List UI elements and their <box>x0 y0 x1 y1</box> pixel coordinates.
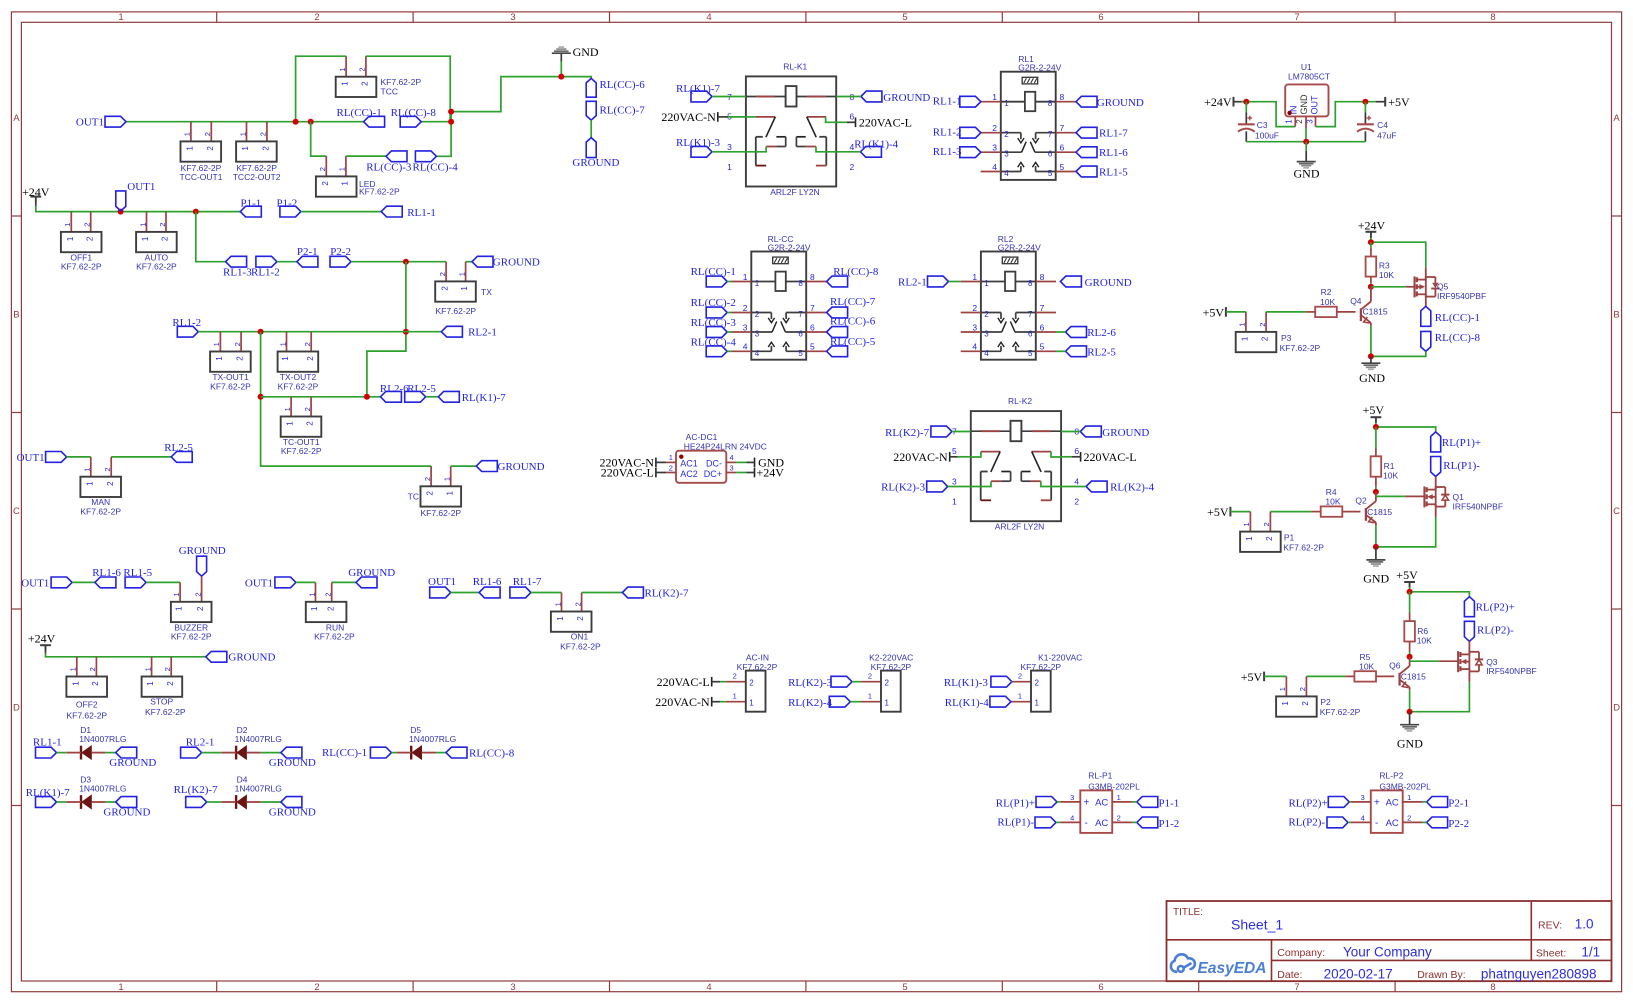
wire OUT1 to MAN pin1 <box>67 456 91 458</box>
wire Q5 drain to RL(CC)-1 <box>1425 294 1427 306</box>
svg-text:GND: GND <box>1294 166 1320 180</box>
svg-text:1: 1 <box>1242 522 1251 526</box>
svg-text:+24V: +24V <box>757 466 785 480</box>
svg-text:AC1: AC1 <box>680 459 698 469</box>
wire +24V to U1 pin1 <box>1234 101 1242 103</box>
svg-text:5: 5 <box>902 12 907 23</box>
connector P1 KF7.62-2P <box>1249 512 1251 532</box>
svg-text:RL(P2)+: RL(P2)+ <box>1476 602 1515 614</box>
svg-text:C4: C4 <box>1377 120 1388 130</box>
net label 220VAC-L (AC-DC1 pin2) <box>655 468 657 478</box>
port RL(K2)-7 (ON1 row) <box>622 587 643 598</box>
svg-text:Sheet:: Sheet: <box>1536 948 1566 960</box>
svg-text:220VAC-L: 220VAC-L <box>1084 450 1137 464</box>
svg-text:1: 1 <box>183 132 192 136</box>
svg-text:6: 6 <box>1074 446 1079 456</box>
svg-text:2: 2 <box>423 477 432 481</box>
wire D3 to GROUND <box>106 801 116 803</box>
svg-text:RL2-1: RL2-1 <box>898 276 927 288</box>
diode D2 1N4007RLG <box>235 746 237 760</box>
svg-text:GND: GND <box>573 45 599 59</box>
svg-text:1: 1 <box>143 667 152 671</box>
svg-text:1: 1 <box>341 81 350 86</box>
svg-text:5: 5 <box>952 446 957 456</box>
svg-text:KF7.62-2P: KF7.62-2P <box>145 707 186 717</box>
svg-text:1: 1 <box>118 982 123 993</box>
junction +24V Q5 <box>1368 239 1374 245</box>
svg-text:1: 1 <box>460 286 469 291</box>
net label 220VAC-L (RL-K1 pin6) <box>855 118 857 128</box>
svg-text:4: 4 <box>992 162 997 172</box>
port RL1-2 <box>256 256 277 267</box>
svg-text:6: 6 <box>1060 143 1065 153</box>
wire RL2-1 to D2 <box>202 752 222 754</box>
svg-text:GROUND: GROUND <box>179 545 226 557</box>
svg-text:P2-1: P2-1 <box>297 246 318 258</box>
port RL1-3 <box>226 256 247 267</box>
port RL(CC)-7 (down) <box>586 101 596 120</box>
svg-text:3: 3 <box>727 142 732 152</box>
svg-text:5: 5 <box>902 982 907 993</box>
svg-text:OUT1: OUT1 <box>17 452 45 464</box>
svg-text:RL1-1: RL1-1 <box>407 207 436 219</box>
wire RL1-7 to ON1 pin1 <box>531 592 562 594</box>
svg-text:D: D <box>1613 702 1620 713</box>
svg-text:KF7.62-2P: KF7.62-2P <box>314 632 355 642</box>
port P1-1 (SSR) <box>1137 797 1158 808</box>
svg-text:2: 2 <box>262 146 271 151</box>
svg-text:3: 3 <box>972 322 977 332</box>
svg-text:7: 7 <box>1028 310 1033 319</box>
wire RUN pin2 to GROUND <box>332 581 356 583</box>
svg-text:RL(CC)-7: RL(CC)-7 <box>830 296 876 308</box>
svg-text:1: 1 <box>1245 536 1254 541</box>
diode D3 1N4007RLG <box>80 795 82 809</box>
connector RUN KF7.62-2P <box>315 582 317 601</box>
svg-text:C1815: C1815 <box>1363 307 1388 317</box>
svg-text:220VAC-L: 220VAC-L <box>859 115 912 129</box>
svg-text:GROUND: GROUND <box>493 257 540 269</box>
svg-text:ON1: ON1 <box>571 632 589 642</box>
svg-text:4: 4 <box>706 12 711 23</box>
svg-text:+24V: +24V <box>1204 95 1232 109</box>
svg-text:ARL2F LY2N: ARL2F LY2N <box>770 187 819 197</box>
svg-text:1: 1 <box>445 491 454 496</box>
junction TX row <box>403 259 409 265</box>
svg-text:KF7.62-2P: KF7.62-2P <box>66 711 107 721</box>
port GROUND (below RL(CC)-7) <box>586 138 596 158</box>
svg-text:REV:: REV: <box>1538 920 1562 932</box>
svg-text:1.0: 1.0 <box>1575 917 1594 932</box>
svg-text:2: 2 <box>306 421 315 426</box>
svg-text:KF7.62-2P: KF7.62-2P <box>1020 662 1061 672</box>
svg-text:GROUND: GROUND <box>269 807 316 819</box>
svg-text:+24V: +24V <box>22 185 50 199</box>
capacitor C4 47uF <box>1364 102 1366 113</box>
svg-text:OUT1: OUT1 <box>428 576 456 588</box>
svg-text:6: 6 <box>1048 150 1053 159</box>
junction TX-OUT row <box>258 329 264 335</box>
svg-text:RL(P1)-: RL(P1)- <box>1443 460 1480 472</box>
wire +24V to P1-1 <box>35 197 37 206</box>
svg-text:+5V: +5V <box>1241 670 1263 684</box>
wire +5V to RL(P2)+ <box>1409 583 1411 588</box>
svg-text:phatnguyen280898: phatnguyen280898 <box>1481 966 1597 981</box>
svg-text:RL(P2)-: RL(P2)- <box>1477 625 1514 637</box>
svg-text:2: 2 <box>314 12 319 23</box>
port GROUND (RL1 pin8) <box>1076 96 1097 107</box>
svg-text:220VAC-L: 220VAC-L <box>601 466 654 480</box>
svg-text:RL(CC)-8: RL(CC)-8 <box>1435 332 1481 344</box>
wire +5V to P2/R5 <box>1264 675 1286 677</box>
wire gate Q1 <box>1375 492 1377 497</box>
transistor Q2 C1815 <box>1375 496 1377 501</box>
wire RL2-1 flag to relay <box>949 281 961 283</box>
svg-text:1: 1 <box>186 146 195 151</box>
svg-text:2: 2 <box>438 272 447 276</box>
svg-text:AC2: AC2 <box>680 469 698 479</box>
svg-text:RL(P2)-: RL(P2)- <box>1288 817 1325 829</box>
svg-text:2: 2 <box>206 146 215 151</box>
svg-text:2: 2 <box>1074 497 1079 507</box>
svg-text:KF7.62-2P: KF7.62-2P <box>281 446 322 456</box>
svg-text:KF7.62-2P: KF7.62-2P <box>210 381 251 391</box>
wire RL2-5 to RL(K1)-7 <box>426 396 439 398</box>
wire U1 GND rail <box>1305 128 1307 142</box>
wire RL(K2)-3 to K2-220VAC <box>852 681 861 683</box>
svg-text:5: 5 <box>1040 342 1045 352</box>
svg-text:P1-1: P1-1 <box>241 197 262 209</box>
svg-text:LM7805CT: LM7805CT <box>1288 72 1330 82</box>
wire +5V to P3/R2 <box>1226 311 1246 313</box>
svg-text:KF7.62-2P: KF7.62-2P <box>359 187 400 197</box>
wire RL-P2 pin1 to P2-1 <box>1423 801 1427 803</box>
svg-text:GROUND: GROUND <box>109 757 156 769</box>
svg-text:1: 1 <box>215 356 224 361</box>
svg-text:Drawn By:: Drawn By: <box>1417 969 1465 981</box>
connector TCC KF7.62-2P <box>345 56 347 76</box>
svg-text:DC+: DC+ <box>704 469 722 479</box>
svg-text:6: 6 <box>850 111 855 121</box>
port P2-1 (SSR) <box>1427 797 1448 808</box>
port RL1-5 (relay) <box>1076 166 1097 177</box>
wire/pin AC-DC1 pin3 <box>726 472 736 474</box>
svg-text:1: 1 <box>553 602 562 606</box>
wire +5V to P1/R4 <box>1230 511 1250 513</box>
junction C4 top <box>1362 99 1368 105</box>
svg-text:B: B <box>13 309 19 320</box>
svg-text:RL(K2)-4: RL(K2)-4 <box>1110 482 1154 494</box>
junction Q6 emitter <box>1407 709 1413 715</box>
net label GND (AC-DC1 pin4) <box>754 458 756 468</box>
svg-text:B: B <box>1613 309 1619 320</box>
svg-text:2: 2 <box>91 681 100 686</box>
port RL2-5 (right) <box>405 391 426 402</box>
svg-text:2: 2 <box>161 236 170 241</box>
wire riser TX row to RL2-1 row <box>367 262 406 397</box>
svg-text:5: 5 <box>1028 349 1033 358</box>
svg-text:RL1-6: RL1-6 <box>473 576 502 588</box>
net label 220VAC-N (AC-DC1 pin1) <box>655 458 657 468</box>
svg-text:GROUND: GROUND <box>269 757 316 769</box>
connector LED KF7.62-2P (pins 2,1) <box>325 156 327 176</box>
svg-text:2: 2 <box>984 310 989 319</box>
svg-text:RL1-5: RL1-5 <box>1099 167 1128 179</box>
svg-text:220VAC-N: 220VAC-N <box>661 110 716 124</box>
svg-text:8: 8 <box>810 272 815 282</box>
svg-text:2: 2 <box>303 342 312 346</box>
connector BUZZER KF7.62-2P <box>179 582 181 601</box>
wire RL-K2 pin6 to 220VAC-L <box>1061 456 1072 458</box>
svg-text:1: 1 <box>1278 687 1287 691</box>
EasyEDA logo <box>1171 954 1195 972</box>
wire Q3 drain <box>1468 641 1470 654</box>
svg-text:2: 2 <box>233 342 242 346</box>
wire Q2 emitter / Q1 source rail <box>1376 517 1436 547</box>
power GND (top) <box>552 52 571 54</box>
svg-text:C: C <box>1613 506 1620 517</box>
svg-text:2: 2 <box>303 407 312 411</box>
svg-text:1: 1 <box>338 167 347 171</box>
svg-text:5: 5 <box>1060 162 1065 172</box>
net label 220VAC-N (RL-K1 pin5) <box>717 112 719 122</box>
svg-text:TCC: TCC <box>381 87 398 97</box>
port GROUND (TX row) <box>472 256 493 267</box>
power +5V (P1) <box>1229 507 1231 517</box>
svg-text:220VAC-L: 220VAC-L <box>657 675 710 689</box>
port RL(CC)-1 <box>364 116 385 127</box>
svg-text:1: 1 <box>443 477 452 481</box>
svg-text:1: 1 <box>743 272 748 282</box>
svg-text:5: 5 <box>798 349 803 358</box>
svg-text:2: 2 <box>318 167 327 171</box>
svg-text:RL(CC)-8: RL(CC)-8 <box>833 266 879 278</box>
port RL(CC)-8 (relay) <box>827 276 848 287</box>
svg-text:6: 6 <box>1040 322 1045 332</box>
port RL(CC)-6 (relay) <box>827 327 848 338</box>
port GROUND (D1) <box>116 747 137 758</box>
power +5V (U1) <box>1376 101 1386 103</box>
svg-text:GROUND: GROUND <box>228 652 275 664</box>
svg-text:Q2: Q2 <box>1355 496 1367 506</box>
svg-text:A: A <box>13 113 20 124</box>
power GND (Q4) <box>1370 356 1372 362</box>
connector P3 KF7.62-2P <box>1245 312 1247 332</box>
svg-text:2: 2 <box>1004 130 1009 139</box>
wire/pin AC-DC1 pin4 <box>726 461 736 463</box>
port GROUND (D4) <box>281 797 302 808</box>
svg-text:10K: 10K <box>1379 270 1394 280</box>
pin U1.3 OUT <box>1315 116 1317 126</box>
svg-text:3: 3 <box>730 464 734 473</box>
diode D4 1N4007RLG <box>235 795 237 809</box>
svg-text:220VAC-N: 220VAC-N <box>893 450 948 464</box>
junction R6 / gate Q3 <box>1407 654 1413 660</box>
svg-text:1N4007RLG: 1N4007RLG <box>409 734 456 744</box>
svg-text:OUT1: OUT1 <box>127 181 155 193</box>
svg-text:GND: GND <box>1299 94 1309 115</box>
svg-text:IRF9540PBF: IRF9540PBF <box>1437 291 1486 301</box>
svg-text:2: 2 <box>83 223 92 227</box>
port GROUND (RL2 pin8) <box>1060 276 1081 287</box>
svg-text:6: 6 <box>1098 12 1103 23</box>
port RL(CC)-8 (D5) <box>446 747 467 758</box>
svg-text:RL2-5: RL2-5 <box>407 383 436 395</box>
port P1-2 (SSR) <box>1137 817 1158 828</box>
port GROUND (down flag above BUZZER) <box>197 556 207 576</box>
junction RL2-1 branch <box>403 329 409 335</box>
wire +24V to Q5 source <box>1370 232 1372 238</box>
transistor Q6 C1815 <box>1409 661 1411 666</box>
svg-text:3: 3 <box>1004 150 1009 159</box>
svg-text:RL-K1: RL-K1 <box>783 61 807 71</box>
svg-text:4: 4 <box>730 453 734 462</box>
svg-text:1: 1 <box>341 181 350 186</box>
wire P2-2 to TX and riser <box>351 261 446 263</box>
power +5V (Q3 section) <box>1404 581 1415 583</box>
wire 220VAC-N to RL-K2 <box>950 456 958 458</box>
svg-text:Your Company: Your Company <box>1343 944 1432 959</box>
svg-text:KF7.62-2P: KF7.62-2P <box>136 261 177 271</box>
svg-text:RL(K2)-7: RL(K2)-7 <box>174 784 218 796</box>
junction RL2-6 branch <box>364 394 370 400</box>
svg-text:1: 1 <box>63 223 72 227</box>
wire Q6 emitter / Q3 source rail <box>1410 682 1470 712</box>
wire RL(K2)-4 to K2-220VAC <box>850 701 861 703</box>
wire riser to TC-OUT1 row <box>261 332 432 466</box>
resistor R2 10K <box>1315 307 1337 317</box>
svg-text:EasyEDA: EasyEDA <box>1198 960 1267 977</box>
wire RL1-5 to BUZZER pin1 <box>146 581 180 583</box>
svg-text:1N4007RLG: 1N4007RLG <box>235 734 282 744</box>
wire RL(K2)-7 to D4 <box>207 801 222 803</box>
svg-text:2: 2 <box>314 982 319 993</box>
port GROUND (RUN row) <box>356 577 377 588</box>
svg-text:RL(K2)-4: RL(K2)-4 <box>788 697 832 709</box>
svg-text:3: 3 <box>952 477 957 487</box>
svg-text:7: 7 <box>1294 12 1299 23</box>
svg-text:1: 1 <box>71 681 80 686</box>
svg-text:RL(P1)+: RL(P1)+ <box>996 798 1035 810</box>
wire gate Q3 <box>1409 657 1411 662</box>
svg-text:4: 4 <box>1004 169 1009 178</box>
svg-text:220VAC-N: 220VAC-N <box>655 695 710 709</box>
svg-text:RL(CC)-5: RL(CC)-5 <box>830 336 876 348</box>
svg-text:1N4007RLG: 1N4007RLG <box>79 784 126 794</box>
svg-text:2: 2 <box>306 356 315 361</box>
svg-text:3: 3 <box>992 143 997 153</box>
svg-text:1: 1 <box>755 279 760 288</box>
port RL(CC)-5 (relay) <box>827 346 848 357</box>
junction +5V Q3 <box>1407 589 1413 595</box>
net label 220VAC-N (AC-IN pin1) <box>711 697 713 707</box>
svg-text:5: 5 <box>1048 169 1053 178</box>
svg-text:2: 2 <box>743 303 748 313</box>
svg-text:OUT1: OUT1 <box>76 116 104 128</box>
svg-text:7: 7 <box>810 303 815 313</box>
svg-text:D: D <box>13 702 20 713</box>
port OUT1 flag (BUZZER) <box>51 577 72 588</box>
wire RL(K1)-7 to RL-K1 <box>712 96 746 98</box>
port RL2-5 (MAN row) <box>171 452 192 463</box>
svg-text:1: 1 <box>172 593 181 597</box>
junction P1 branch <box>193 209 199 215</box>
svg-text:IRF540NPBF: IRF540NPBF <box>1486 666 1537 676</box>
svg-text:RL1-3: RL1-3 <box>223 267 252 279</box>
svg-text:1: 1 <box>1004 99 1009 108</box>
port RL2-6 (left) <box>380 391 401 402</box>
port RL(P1)+ (up) <box>1431 432 1441 452</box>
svg-text:2: 2 <box>163 667 172 671</box>
wire branch to RL1-3 row <box>196 212 226 262</box>
power +24V (Q5 section) <box>1366 231 1377 233</box>
svg-text:RL(K1)-7: RL(K1)-7 <box>676 83 720 95</box>
wire TC pin1 to GROUND <box>451 465 477 467</box>
junction R3 / gate <box>1368 284 1374 290</box>
svg-text:4: 4 <box>972 342 977 352</box>
svg-text:1: 1 <box>212 342 221 346</box>
wire +24V to GROUND (OFF2/STOP row) <box>45 646 47 654</box>
power +24V (U1) <box>1233 97 1235 107</box>
svg-text:ARL2F LY2N: ARL2F LY2N <box>995 522 1044 532</box>
wire LED branch <box>311 122 327 156</box>
svg-text:RL1-2: RL1-2 <box>933 127 962 139</box>
svg-text:RL(P1)-: RL(P1)- <box>997 817 1034 829</box>
svg-text:Q4: Q4 <box>1350 296 1362 306</box>
port P2-2 <box>330 256 351 267</box>
svg-text:2: 2 <box>573 602 582 606</box>
svg-text:2: 2 <box>1262 522 1271 526</box>
svg-text:TITLE:: TITLE: <box>1173 907 1203 918</box>
port RL(CC)-4 <box>415 151 436 162</box>
connector AC-IN KF7.62-2P <box>726 681 746 683</box>
port RL1-1 (row B) <box>381 206 402 217</box>
svg-text:C: C <box>13 506 20 517</box>
svg-text:RL-K2: RL-K2 <box>1008 396 1032 406</box>
wire OUT1 to RL1-6 (BUZZER row) <box>72 581 95 583</box>
svg-text:+24V: +24V <box>1358 218 1386 232</box>
svg-text:RL1-7: RL1-7 <box>1099 128 1128 140</box>
svg-text:GROUND: GROUND <box>103 807 150 819</box>
svg-text:1: 1 <box>457 272 466 276</box>
svg-text:2: 2 <box>850 162 855 172</box>
svg-text:R1: R1 <box>1384 461 1395 471</box>
svg-text:1: 1 <box>885 699 890 708</box>
svg-text:RL(K1)-7: RL(K1)-7 <box>462 392 506 404</box>
svg-text:GROUND: GROUND <box>1097 97 1144 109</box>
svg-text:2: 2 <box>426 491 435 496</box>
svg-text:1: 1 <box>286 421 295 426</box>
svg-text:1N4007RLG: 1N4007RLG <box>79 734 126 744</box>
wire RL2-1 branch <box>406 331 442 333</box>
connector MAN KF7.62-2P <box>90 457 92 477</box>
svg-text:RL1-2: RL1-2 <box>251 267 280 279</box>
svg-text:RL2-5: RL2-5 <box>164 442 193 454</box>
svg-text:4: 4 <box>706 982 711 993</box>
port GROUND (OFF2/STOP row) <box>206 651 227 662</box>
connector TC-OUT1 KF7.62-2P <box>290 397 292 417</box>
svg-text:TC: TC <box>408 492 419 502</box>
svg-text:2: 2 <box>1265 536 1274 541</box>
svg-text:GROUND: GROUND <box>883 92 930 104</box>
port RL(P2)+ (up) <box>1464 597 1474 617</box>
connector K1-220VAC KF7.62-2P <box>1011 681 1031 683</box>
svg-text:1: 1 <box>175 606 184 611</box>
port RL(P2)- (down) <box>1464 621 1474 641</box>
svg-text:2: 2 <box>324 593 333 597</box>
wire Q1 drain <box>1435 477 1437 490</box>
svg-text:RL(P1)+: RL(P1)+ <box>1442 437 1481 449</box>
